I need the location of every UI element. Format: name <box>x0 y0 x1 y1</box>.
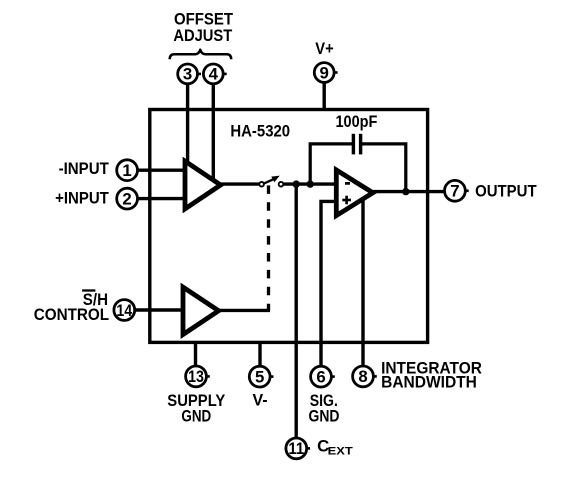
svg-text:100pF: 100pF <box>336 112 378 131</box>
pin 1 terminal <box>117 160 138 181</box>
IC outline box <box>150 110 428 343</box>
svg-text:6: 6 <box>316 367 325 386</box>
brace over offset adjust pins <box>170 50 232 60</box>
wire hold node to pin11 CEXT <box>295 184 298 438</box>
wire feedback right vertical to output node <box>362 144 406 192</box>
pin 11 external capacitor terminal <box>286 438 310 459</box>
svg-text:HA-5320: HA-5320 <box>230 121 290 140</box>
wire pin1 to U1 inverting input <box>136 168 187 171</box>
switch S1 sample/hold switch <box>259 176 283 187</box>
junction dot summing node <box>307 180 314 187</box>
svg-text:3: 3 <box>183 65 192 84</box>
wire U2 internal node to pin8 integrator bandwidth <box>361 198 364 366</box>
wire pin4 offset adjust into U1 <box>212 83 215 180</box>
svg-text:V-: V- <box>252 390 267 409</box>
wire U3 output toward switch control <box>218 309 270 312</box>
svg-text:13: 13 <box>188 367 204 386</box>
wire U2 non-inverting input to pin6 signal ground <box>321 201 339 366</box>
buffer U3 sample/hold control buffer <box>183 287 219 334</box>
wire switch to U2 inverting input <box>284 182 338 185</box>
pin 14 S/H control terminal <box>114 300 135 321</box>
svg-text:ADJUST: ADJUST <box>173 26 233 45</box>
svg-text:4: 4 <box>209 65 219 84</box>
svg-text:BANDWIDTH: BANDWIDTH <box>381 373 477 392</box>
pin 3 terminal <box>178 64 201 84</box>
svg-text:8: 8 <box>358 367 367 386</box>
wire pin5 V- stub <box>258 342 261 366</box>
label CEXT <box>317 437 353 458</box>
svg-text:5: 5 <box>255 367 264 386</box>
wire pin14 to U3 input <box>134 308 186 311</box>
svg-text:-INPUT: -INPUT <box>59 159 110 178</box>
svg-text:11: 11 <box>288 439 304 458</box>
op-amp U1 input amplifier <box>185 161 221 209</box>
svg-text:GND: GND <box>181 407 211 426</box>
op-amp U2 output integrator amplifier <box>336 170 373 216</box>
pin 4 terminal <box>203 64 226 84</box>
pin 7 output terminal <box>445 180 469 201</box>
pin 2 terminal <box>117 188 138 209</box>
wire pin3 offset adjust into U1 <box>186 83 189 163</box>
pin 9 V+ terminal <box>314 63 337 83</box>
wire pin13 supply ground stub <box>194 342 197 366</box>
pin 13 supply ground terminal <box>186 366 210 387</box>
pin 6 signal ground terminal <box>311 366 335 387</box>
svg-text:OUTPUT: OUTPUT <box>475 182 537 201</box>
pin 8 integrator bandwidth terminal <box>353 366 377 387</box>
svg-text:9: 9 <box>320 63 329 82</box>
svg-text:EXT: EXT <box>328 445 353 457</box>
wire U2 output to pin7 <box>373 190 445 193</box>
svg-text:V+: V+ <box>315 39 334 58</box>
svg-text:GND: GND <box>309 407 340 426</box>
svg-text:2: 2 <box>122 189 131 208</box>
svg-text:CONTROL: CONTROL <box>34 305 109 324</box>
svg-text:7: 7 <box>450 182 459 201</box>
pin 5 V- terminal <box>249 366 273 387</box>
svg-text:1: 1 <box>122 161 131 180</box>
junction dot hold node <box>293 180 300 187</box>
svg-text:+INPUT: +INPUT <box>55 189 109 208</box>
wire pin9 V+ to box <box>323 82 326 111</box>
wire feedback left vertical from summing node <box>310 144 352 184</box>
capacitor C1 100pF plates <box>353 134 360 155</box>
wire pin2 to U1 non-inverting input <box>136 197 187 200</box>
junction dot output node <box>402 188 409 195</box>
dashed control line from switch to U3 <box>267 185 270 310</box>
label S/H with overline on S <box>82 290 108 309</box>
wire U1 output to switch <box>218 182 259 185</box>
svg-text:14: 14 <box>116 301 132 320</box>
